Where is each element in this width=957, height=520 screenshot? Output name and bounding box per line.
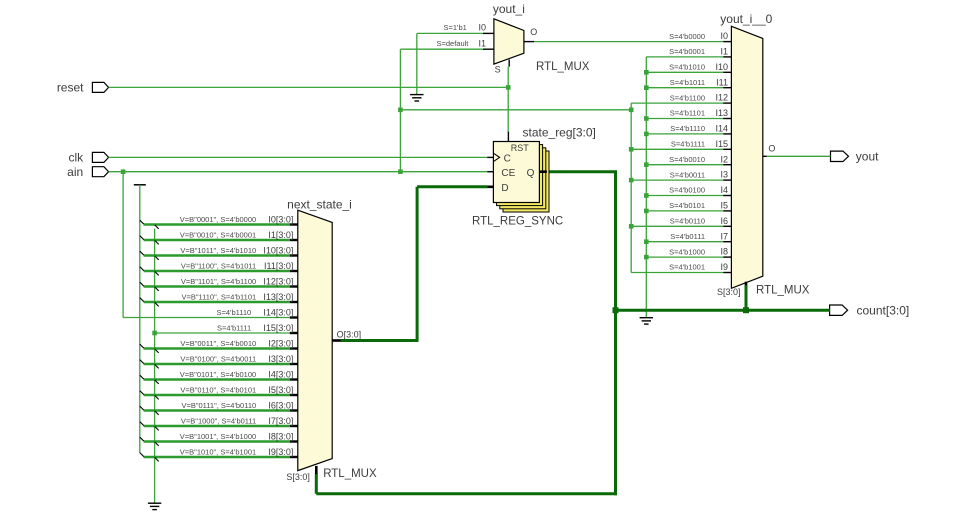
bus Q vertical trunk: [614, 172, 617, 496]
wire clk to C: [109, 156, 488, 158]
svg-text:V=B"1000", S=4'b0111: V=B"1000", S=4'b0111: [181, 416, 256, 425]
svg-text:RTL_MUX: RTL_MUX: [536, 61, 590, 73]
output port yout: [831, 151, 849, 161]
wire I5 row of yout_i__0: [646, 210, 723, 212]
junction reset riser: [506, 85, 511, 90]
svg-text:S=4'b0101: S=4'b0101: [669, 201, 705, 210]
pin stub I11[3:0] next_state_i: [290, 270, 298, 272]
mux yout_i__0 body: [731, 26, 762, 288]
pin stub I3[3:0] next_state_i: [290, 363, 298, 365]
svg-text:V=B"0011", S=4'b0010: V=B"0011", S=4'b0010: [180, 339, 256, 348]
svg-text:S=4'b1011: S=4'b1011: [670, 78, 705, 87]
svg-text:S=4'b1111: S=4'b1111: [671, 140, 705, 149]
svg-text:yout_i__0: yout_i__0: [720, 12, 772, 26]
wire yout_i__0 O to yout port: [767, 155, 831, 157]
svg-text:V=B"1100", S=4'b1011: V=B"1100", S=4'b1011: [181, 261, 256, 270]
junction trunk A / I8: [644, 255, 649, 260]
svg-text:state_reg[3:0]: state_reg[3:0]: [523, 125, 596, 139]
svg-text:V=B"1110", S=4'b1101: V=B"1110", S=4'b1101: [181, 292, 256, 301]
wire I3 row of yout_i__0: [631, 179, 723, 181]
svg-text:V=B"1010", S=4'b1001: V=B"1010", S=4'b1001: [180, 447, 256, 456]
wire I7 row of yout_i__0: [646, 241, 723, 243]
svg-text:I13: I13: [715, 108, 728, 118]
mux next_state_i body: [298, 210, 332, 470]
svg-text:S=4'b0000: S=4'b0000: [669, 32, 705, 41]
pin stub I14 yout_i__0: [723, 133, 731, 135]
svg-text:S=4'b1110: S=4'b1110: [670, 124, 705, 133]
svg-text:I1: I1: [720, 47, 728, 57]
svg-text:I2[3:0]: I2[3:0]: [268, 338, 293, 348]
junction trunk A / I11: [644, 85, 649, 90]
wire I9[3:0] constant row of next_state_i: [140, 453, 290, 462]
pin stub I4[3:0] next_state_i: [290, 378, 298, 380]
svg-text:C: C: [504, 153, 511, 164]
wire I13 row of yout_i__0: [646, 118, 723, 120]
bus state bottom run: [316, 492, 617, 495]
svg-text:I14: I14: [715, 124, 728, 134]
bus state up to next_state_i S: [315, 474, 318, 494]
pin stub I1 yout_i__0: [723, 56, 731, 58]
pin stub I15 yout_i__0: [723, 148, 731, 150]
svg-text:next_state_i: next_state_i: [287, 198, 352, 212]
svg-text:S=4'b0110: S=4'b0110: [670, 217, 705, 226]
svg-text:I8: I8: [720, 247, 728, 257]
svg-text:I3: I3: [720, 170, 728, 180]
wire ain riser to yout_i I1: [399, 49, 401, 172]
ground symbol for yout_i I0: [410, 95, 423, 101]
junction trunk B / ain feed: [629, 108, 634, 113]
output port count[3:0]: [830, 305, 848, 315]
wire I1[3:0] constant row of next_state_i: [140, 236, 290, 245]
pin stub I7 yout_i__0: [723, 241, 731, 243]
pin stub I0[3:0] next_state_i: [290, 223, 298, 225]
left trunk B vertical (gnd): [154, 229, 156, 504]
svg-text:I5[3:0]: I5[3:0]: [268, 385, 293, 395]
svg-text:V=B"1011", S=4'b1010: V=B"1011", S=4'b1010: [180, 246, 256, 255]
pin stub I12 yout_i__0: [723, 102, 731, 104]
pin stub I9[3:0] next_state_i: [290, 456, 298, 458]
wire yout_i I0: [417, 32, 483, 34]
svg-text:O[3:0]: O[3:0]: [337, 329, 362, 339]
pin stub I13[3:0] next_state_i: [290, 301, 298, 303]
pin stub I1 yout_i: [483, 48, 494, 50]
pin stub C state_reg with clock arrow: [487, 156, 493, 158]
svg-text:S=4'b0111: S=4'b0111: [670, 232, 705, 241]
wire I14[3:0] row of next_state_i: [123, 317, 290, 319]
svg-text:S[3:0]: S[3:0]: [717, 287, 741, 297]
junction trunk A / I13: [644, 116, 649, 121]
bus next_state vertical: [416, 187, 419, 341]
svg-text:I10[3:0]: I10[3:0]: [263, 245, 293, 255]
wire I4 row of yout_i__0: [646, 195, 723, 197]
svg-text:I13[3:0]: I13[3:0]: [263, 292, 293, 302]
register state_reg[3:0] stack layers: [497, 145, 549, 212]
svg-text:RST: RST: [511, 143, 530, 153]
wire I0[3:0] constant row of next_state_i: [140, 220, 290, 229]
svg-text:I0: I0: [720, 31, 728, 41]
wire ain to CE: [109, 171, 488, 173]
input port reset: [92, 82, 108, 92]
svg-text:S=4'b1111: S=4'b1111: [217, 323, 251, 332]
pin stub I9 yout_i__0: [723, 272, 731, 274]
junction trunk A / I7: [644, 239, 649, 244]
mux yout_i body: [494, 19, 524, 64]
wire reset horizontal: [109, 86, 509, 88]
wire I8[3:0] constant row of next_state_i: [140, 437, 290, 446]
pin stub O yout_i__0: [763, 155, 767, 157]
svg-text:I4[3:0]: I4[3:0]: [268, 369, 293, 379]
svg-text:RTL_REG_SYNC: RTL_REG_SYNC: [472, 216, 563, 228]
wire I12 row of yout_i__0: [631, 102, 723, 104]
wire I13[3:0] constant row of next_state_i: [140, 298, 290, 307]
wire reset riser to yout_i S and state_reg RST: [507, 67, 509, 132]
bus next_state to D: [417, 185, 487, 188]
pin stub I14[3:0] next_state_i: [290, 316, 298, 318]
svg-text:I4: I4: [720, 185, 728, 195]
svg-text:I0: I0: [478, 23, 486, 33]
svg-text:I15[3:0]: I15[3:0]: [263, 323, 293, 333]
svg-text:yout: yout: [856, 150, 879, 164]
trunk B vertical (ain) feeding yout_i__0: [630, 103, 632, 272]
wire I9 row of yout_i__0: [631, 272, 723, 274]
svg-text:S=1'b1: S=1'b1: [443, 23, 466, 32]
ground symbol under trunk A: [640, 318, 653, 324]
wire I12[3:0] constant row of next_state_i: [140, 282, 290, 291]
junction trunk A / I5: [644, 209, 649, 214]
wire yout_i O to yout_i__0 I0: [534, 41, 723, 43]
junction ain left branch: [121, 169, 126, 174]
junction trunk B / I3: [629, 178, 634, 183]
wire I15[3:0] row of next_state_i: [155, 332, 290, 334]
wire yout_i I0 drop to ground: [416, 33, 418, 94]
svg-text:count[3:0]: count[3:0]: [857, 304, 910, 318]
pin stub CE state_reg: [487, 171, 493, 173]
pin stub I0 yout_i: [483, 32, 494, 34]
svg-text:clk: clk: [69, 151, 85, 165]
svg-text:S=4'b1010: S=4'b1010: [669, 63, 705, 72]
svg-text:V=B"0010", S=4'b0001: V=B"0010", S=4'b0001: [180, 230, 256, 239]
pin stub I8[3:0] next_state_i: [290, 440, 298, 442]
pin stub I5[3:0] next_state_i: [290, 394, 298, 396]
junction trunk A / I4: [644, 193, 649, 198]
wire I6 row of yout_i__0: [631, 225, 723, 227]
pin stub I2 yout_i__0: [723, 164, 731, 166]
wire I11 row of yout_i__0: [646, 87, 723, 89]
pin stub O yout_i: [524, 41, 534, 43]
junction trunk B / I6: [629, 224, 634, 229]
wire I10[3:0] constant row of next_state_i: [140, 251, 290, 260]
svg-text:V=B"1001", S=4'b1000: V=B"1001", S=4'b1000: [180, 432, 256, 441]
svg-text:I0[3:0]: I0[3:0]: [268, 214, 293, 224]
pin stub I13 yout_i__0: [723, 118, 731, 120]
wire I8 row of yout_i__0: [646, 256, 723, 258]
bus to yout_i__0 S: [745, 285, 748, 311]
pin stub I11 yout_i__0: [723, 87, 731, 89]
svg-text:V=B"1101", S=4'b1100: V=B"1101", S=4'b1100: [181, 277, 256, 286]
junction state bus / count: [613, 307, 619, 313]
svg-text:S=default: S=default: [436, 39, 469, 48]
ground symbol bottom left: [148, 503, 161, 509]
svg-text:I15: I15: [715, 139, 728, 149]
bus Q from state_reg: [547, 170, 617, 173]
input port clk: [92, 152, 108, 162]
svg-text:I12[3:0]: I12[3:0]: [263, 276, 293, 286]
svg-text:I7: I7: [720, 231, 728, 241]
svg-text:I1[3:0]: I1[3:0]: [268, 230, 293, 240]
svg-text:S=4'b0011: S=4'b0011: [670, 170, 705, 179]
svg-text:I6: I6: [720, 216, 728, 226]
pin stub I8 yout_i__0: [723, 256, 731, 258]
svg-text:O: O: [530, 27, 537, 37]
svg-text:S=4'b1000: S=4'b1000: [669, 247, 705, 256]
svg-text:I9: I9: [720, 262, 728, 272]
wire yout_i I1: [400, 48, 483, 50]
pin stub I2[3:0] next_state_i: [290, 347, 298, 349]
pin stub S yout_i: [508, 60, 510, 67]
junction trunk A / I10: [644, 70, 649, 75]
svg-text:V=B"0110", S=4'b0101: V=B"0110", S=4'b0101: [180, 385, 256, 394]
svg-text:S[3:0]: S[3:0]: [286, 472, 310, 482]
svg-text:yout_i: yout_i: [493, 2, 525, 16]
bus next_state O horizontal: [341, 339, 419, 342]
pin stub O[3:0] next_state_i: [332, 339, 341, 342]
svg-text:I6[3:0]: I6[3:0]: [268, 400, 293, 410]
pin stub S[3:0] next_state_i: [315, 466, 318, 474]
svg-text:V=B"0101", S=4'b0100: V=B"0101", S=4'b0100: [180, 370, 256, 379]
pin stub I7[3:0] next_state_i: [290, 425, 298, 427]
pin stub S[3:0] yout_i__0: [745, 282, 748, 286]
junction trunk A / I2: [644, 162, 649, 167]
pin stub I15[3:0] next_state_i: [290, 332, 298, 334]
wire I10 row of yout_i__0: [646, 71, 723, 73]
pin stub RST state_reg: [507, 132, 509, 142]
svg-text:S=4'b0001: S=4'b0001: [669, 47, 705, 56]
svg-text:ain: ain: [67, 165, 83, 179]
bus count[3:0] to output port: [616, 309, 830, 312]
pin stub Q state_reg: [539, 170, 547, 173]
wire I4[3:0] constant row of next_state_i: [140, 375, 290, 384]
left trunk A vertical (vcc): [139, 185, 141, 453]
svg-text:I8[3:0]: I8[3:0]: [268, 431, 293, 441]
svg-text:reset: reset: [57, 81, 84, 95]
wire ain feed to yout_i__0 trunk B: [400, 109, 631, 111]
pin stub I1[3:0] next_state_i: [290, 239, 298, 241]
svg-text:I1: I1: [478, 38, 486, 48]
wire I14 row of yout_i__0: [646, 133, 723, 135]
pin stub D state_reg: [487, 186, 493, 189]
svg-text:V=B"0001", S=4'b0000: V=B"0001", S=4'b0000: [180, 215, 256, 224]
pin stub I6 yout_i__0: [723, 225, 731, 227]
wire I2 row of yout_i__0: [646, 164, 723, 166]
wire I5[3:0] constant row of next_state_i: [140, 391, 290, 400]
wire I2[3:0] constant row of next_state_i: [140, 344, 290, 353]
svg-text:S=4'b1001: S=4'b1001: [669, 263, 705, 272]
pin stub I3 yout_i__0: [723, 179, 731, 181]
svg-text:RTL_MUX: RTL_MUX: [756, 284, 810, 296]
register state_reg[3:0] body: [493, 142, 539, 203]
wire ain drop to I14 row: [122, 172, 124, 318]
svg-text:I2: I2: [720, 154, 728, 164]
pin stub I4 yout_i__0: [723, 195, 731, 197]
pin stub I0 yout_i__0: [723, 41, 731, 43]
svg-text:I9[3:0]: I9[3:0]: [268, 447, 293, 457]
svg-text:S=4'b0010: S=4'b0010: [669, 155, 705, 164]
junction ain riser branch: [398, 169, 403, 174]
svg-text:I11: I11: [716, 77, 728, 87]
svg-text:CE: CE: [501, 168, 515, 179]
vcc bar for left trunk A: [134, 184, 146, 186]
junction trunk A / I14: [644, 132, 649, 137]
svg-text:I10: I10: [715, 62, 728, 72]
wire I11[3:0] constant row of next_state_i: [140, 267, 290, 276]
svg-text:S=4'b1101: S=4'b1101: [670, 109, 705, 118]
svg-text:I12: I12: [715, 93, 728, 103]
svg-text:I11[3:0]: I11[3:0]: [264, 261, 293, 271]
svg-text:S: S: [495, 65, 501, 75]
trunk A vertical (gnd) feeding yout_i__0: [645, 57, 647, 318]
svg-text:O: O: [768, 144, 775, 154]
wire I6[3:0] constant row of next_state_i: [140, 406, 290, 415]
junction ain riser to right trunk: [398, 108, 403, 113]
svg-text:I5: I5: [720, 201, 728, 211]
pin stub I10 yout_i__0: [723, 71, 731, 73]
svg-text:D: D: [501, 183, 508, 194]
svg-text:S=4'b1100: S=4'b1100: [670, 93, 705, 102]
svg-text:I7[3:0]: I7[3:0]: [268, 416, 293, 426]
input port ain: [92, 167, 108, 177]
wire I3[3:0] constant row of next_state_i: [140, 360, 290, 369]
svg-text:I14[3:0]: I14[3:0]: [263, 307, 293, 317]
junction count / yout_i__0 S: [743, 307, 749, 313]
pin stub I10[3:0] next_state_i: [290, 254, 298, 256]
wire I7[3:0] constant row of next_state_i: [140, 422, 290, 431]
svg-text:V=B"0100", S=4'b0011: V=B"0100", S=4'b0011: [180, 354, 256, 363]
junction left trunk B / I15 row: [152, 331, 157, 336]
junction trunk B / I15: [629, 147, 634, 152]
pin stub I5 yout_i__0: [723, 210, 731, 212]
wire I1 row of yout_i__0: [646, 56, 723, 58]
svg-text:S=4'b1110: S=4'b1110: [216, 308, 251, 317]
svg-text:RTL_MUX: RTL_MUX: [323, 468, 377, 480]
wire I15 row of yout_i__0: [631, 148, 723, 150]
svg-text:V=B"0111", S=4'b0110: V=B"0111", S=4'b0110: [181, 401, 256, 410]
pin stub I12[3:0] next_state_i: [290, 285, 298, 287]
svg-text:S=4'b0100: S=4'b0100: [669, 186, 705, 195]
svg-text:I3[3:0]: I3[3:0]: [268, 354, 293, 364]
pin stub I6[3:0] next_state_i: [290, 409, 298, 411]
svg-text:Q: Q: [527, 168, 535, 179]
